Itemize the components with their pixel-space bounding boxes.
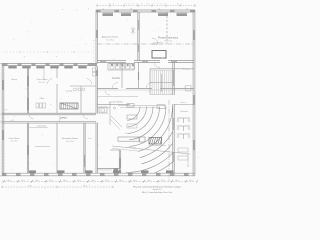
svg-text:Clinton N.Y.: Clinton N.Y. (152, 188, 162, 191)
svg-text:Stairway: Stairway (183, 68, 190, 71)
svg-text:3 6: 3 6 (125, 4, 130, 6)
svg-text:14-0: 14-0 (35, 180, 38, 182)
svg-text:40-0 x 26-6: 40-0 x 26-6 (164, 41, 172, 43)
svg-text:14-0: 14-0 (175, 180, 178, 182)
svg-text:Corridor: Corridor (112, 77, 121, 80)
svg-text:line of ceiling: line of ceiling (153, 42, 162, 44)
svg-text:Physical Laboratory: Physical Laboratory (158, 37, 179, 40)
svg-text:Platform: Platform (125, 132, 132, 135)
svg-text:5 2: 5 2 (160, 4, 165, 6)
svg-text:Class Room: Class Room (9, 138, 20, 140)
svg-text:24-0 x 30-6: 24-0 x 30-6 (66, 141, 74, 143)
svg-text:14-0: 14-0 (63, 180, 66, 182)
svg-text:Library: Library (11, 78, 17, 81)
svg-text:26-0 x 30-0: 26-0 x 30-0 (106, 40, 114, 42)
svg-text:2 8 6 14 2 9: 2 8 6 14 2 9 (132, 4, 160, 6)
svg-text:14-0: 14-0 (7, 180, 10, 182)
svg-text:8 2: 8 2 (177, 4, 183, 6)
svg-text:Lecture Room: Lecture Room (109, 100, 123, 103)
svg-text:14-0: 14-0 (91, 180, 94, 182)
svg-text:14: 14 (158, 9, 160, 11)
svg-text:14-0: 14-0 (161, 180, 164, 182)
svg-text:w c: w c (113, 59, 116, 61)
svg-text:Recitation Room: Recitation Room (62, 137, 78, 140)
svg-text:14-0: 14-0 (147, 180, 150, 182)
svg-text:14-0: 14-0 (49, 180, 52, 182)
svg-text:14-0: 14-0 (119, 180, 122, 182)
svg-text:14-0: 14-0 (21, 180, 24, 182)
svg-text:Chemical: Chemical (180, 111, 188, 113)
svg-text:12: 12 (186, 9, 188, 11)
svg-text:14: 14 (130, 9, 132, 11)
svg-text:Ellis G. Lamed Architect N: Ellis G. Lamed Architect New York (142, 191, 172, 194)
svg-text:47-6: 47-6 (28, 186, 31, 188)
svg-text:14-0: 14-0 (189, 180, 192, 182)
svg-text:21-0 x 30-6: 21-0 x 30-6 (10, 141, 17, 143)
svg-text:Physical Laboratory Building f: Physical Laboratory Building for Hamilto… (133, 186, 182, 189)
svg-text:Corridor: Corridor (59, 117, 68, 120)
svg-text:Class Room: Class Room (37, 79, 48, 81)
svg-text:Lavatory: Lavatory (66, 90, 73, 93)
svg-text:14-0: 14-0 (105, 180, 108, 182)
svg-text:14-0: 14-0 (77, 180, 80, 182)
svg-text:47-6: 47-6 (83, 186, 86, 188)
svg-text:14-0: 14-0 (133, 180, 136, 182)
svg-text:24-0 x 21-0: 24-0 x 21-0 (38, 82, 45, 84)
svg-text:12: 12 (102, 9, 104, 11)
svg-text:Balance: Balance (181, 102, 187, 104)
svg-text:9 6: 9 6 (109, 4, 115, 6)
svg-text:Office: Office (40, 98, 45, 100)
svg-text:Apparatus Room: Apparatus Room (102, 36, 119, 39)
